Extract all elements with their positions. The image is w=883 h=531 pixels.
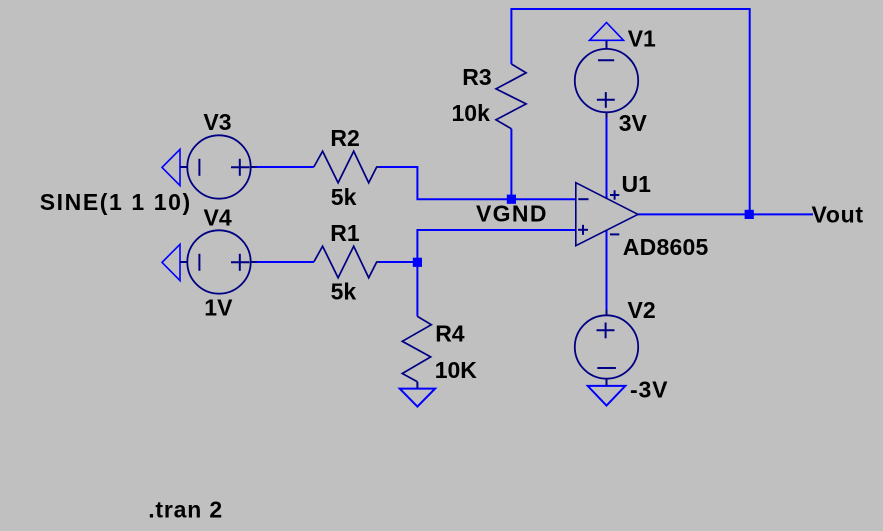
- svg-text:R3: R3: [462, 64, 491, 90]
- svg-text:3V: 3V: [619, 110, 648, 136]
- svg-text:R1: R1: [330, 220, 360, 246]
- svg-text:V4: V4: [204, 204, 232, 230]
- svg-text:R4: R4: [435, 320, 465, 346]
- svg-text:1V: 1V: [204, 294, 233, 320]
- svg-text:SINE(1 1 10): SINE(1 1 10): [40, 189, 191, 215]
- svg-text:AD8605: AD8605: [623, 234, 709, 260]
- svg-text:-3V: -3V: [630, 376, 668, 402]
- svg-text:10K: 10K: [435, 357, 478, 383]
- svg-text:5k: 5k: [331, 279, 357, 305]
- svg-text:10k: 10k: [452, 100, 491, 126]
- svg-text:5k: 5k: [331, 184, 357, 210]
- svg-text:VGND: VGND: [476, 200, 547, 226]
- svg-text:U1: U1: [622, 171, 652, 197]
- svg-text:R2: R2: [330, 125, 359, 151]
- svg-text:V2: V2: [628, 297, 656, 323]
- svg-text:V3: V3: [203, 109, 231, 135]
- svg-text:Vout: Vout: [812, 202, 864, 228]
- svg-text:V1: V1: [628, 26, 656, 52]
- svg-text:.tran 2: .tran 2: [148, 497, 222, 523]
